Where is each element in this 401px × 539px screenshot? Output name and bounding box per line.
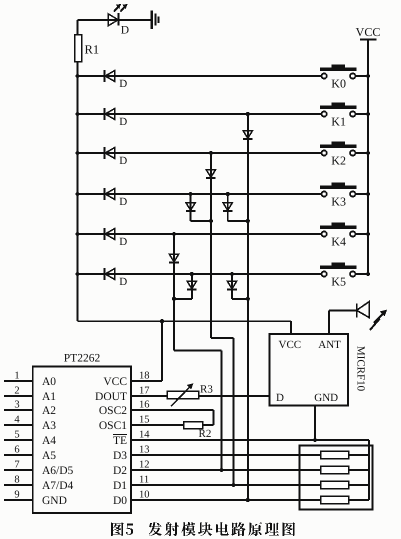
- svg-text:D1: D1: [113, 480, 127, 492]
- svg-text:13: 13: [139, 444, 150, 455]
- svg-text:A0: A0: [42, 376, 56, 388]
- svg-text:9: 9: [14, 489, 19, 500]
- svg-text:3: 3: [14, 399, 19, 410]
- svg-text:D3: D3: [113, 450, 127, 462]
- svg-text:R2: R2: [199, 428, 212, 440]
- svg-text:D0: D0: [113, 495, 127, 507]
- svg-text:GND: GND: [314, 392, 338, 404]
- svg-text:PT2262: PT2262: [64, 353, 101, 365]
- svg-text:6: 6: [14, 444, 19, 455]
- svg-text:4: 4: [14, 414, 20, 425]
- svg-text:15: 15: [139, 414, 150, 425]
- svg-text:GND: GND: [42, 495, 67, 507]
- svg-text:K5: K5: [331, 274, 346, 288]
- svg-text:D: D: [121, 25, 129, 37]
- svg-text:ANT: ANT: [318, 339, 341, 351]
- svg-text:A1: A1: [42, 391, 56, 403]
- svg-text:A4: A4: [42, 435, 56, 447]
- svg-text:18: 18: [139, 370, 150, 381]
- svg-text:K0: K0: [331, 76, 346, 90]
- svg-text:10: 10: [139, 489, 150, 500]
- svg-text:VCC: VCC: [356, 25, 381, 39]
- svg-text:16: 16: [139, 399, 150, 410]
- svg-text:R1: R1: [85, 43, 100, 57]
- svg-text:D: D: [119, 155, 127, 167]
- svg-text:12: 12: [139, 459, 150, 470]
- svg-text:D: D: [119, 236, 127, 248]
- svg-text:5: 5: [14, 429, 19, 440]
- svg-text:1: 1: [14, 370, 19, 381]
- svg-text:2: 2: [14, 385, 19, 396]
- svg-text:D2: D2: [113, 465, 127, 477]
- svg-text:8: 8: [14, 474, 19, 485]
- svg-text:A7/D4: A7/D4: [42, 480, 74, 492]
- svg-text:7: 7: [14, 459, 19, 470]
- svg-text:D: D: [119, 116, 127, 128]
- svg-text:D: D: [276, 392, 284, 404]
- svg-text:K2: K2: [331, 153, 346, 167]
- svg-text:A6/D5: A6/D5: [42, 465, 74, 477]
- svg-text:14: 14: [139, 429, 150, 440]
- svg-text:A5: A5: [42, 450, 56, 462]
- svg-text:K1: K1: [331, 114, 346, 128]
- svg-text:R3: R3: [200, 383, 213, 395]
- svg-text:VCC: VCC: [103, 376, 127, 388]
- svg-text:A3: A3: [42, 420, 56, 432]
- svg-text:TE: TE: [113, 435, 127, 447]
- svg-text:D: D: [119, 196, 127, 208]
- svg-text:OSC2: OSC2: [99, 405, 127, 417]
- svg-text:K4: K4: [331, 234, 346, 248]
- svg-text:OSC1: OSC1: [99, 420, 127, 432]
- svg-text:17: 17: [139, 385, 150, 396]
- svg-text:D: D: [119, 78, 127, 90]
- svg-text:MICRF10: MICRF10: [355, 346, 367, 392]
- svg-text:K3: K3: [331, 194, 346, 208]
- svg-text:VCC: VCC: [279, 339, 302, 351]
- svg-text:D: D: [119, 276, 127, 288]
- svg-text:DOUT: DOUT: [95, 391, 127, 403]
- svg-text:11: 11: [139, 474, 149, 485]
- svg-text:A2: A2: [42, 405, 56, 417]
